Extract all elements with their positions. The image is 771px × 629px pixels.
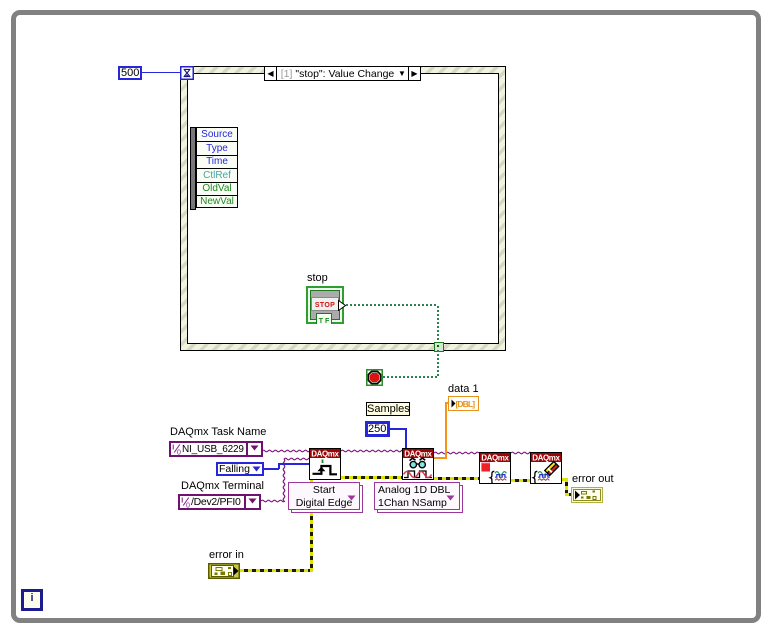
stop terminal output arrow (338, 300, 346, 311)
wire error VI2 to VI3 (434, 477, 479, 480)
wire boolean dotted to stop function (383, 376, 439, 378)
DAQmx stop task VI U3 (479, 452, 511, 484)
label Samples (366, 402, 410, 416)
wire 500 to timeout (141, 72, 180, 73)
constant 500 (118, 66, 142, 80)
svg-text:0: 0 (177, 450, 181, 456)
error in control icon (208, 563, 240, 579)
svg-text:DAQmx: DAQmx (532, 454, 560, 463)
stop function (red octagon) (366, 369, 383, 386)
wire VI3 to VI4 (511, 452, 530, 454)
wire error VI1 to VI2 (341, 476, 402, 479)
start digital edge selector (291, 485, 363, 513)
wire error VI3 to VI4 (511, 479, 530, 482)
svg-text:I: I (181, 498, 183, 505)
svg-text:0: 0 (186, 503, 190, 509)
data 1 DBL array indicator (448, 396, 479, 411)
stop label (307, 273, 328, 284)
falling combo (216, 462, 264, 476)
wire boolean dotted below tunnel (437, 350, 439, 377)
wire boolean dotted vertical into tunnel (437, 306, 439, 342)
wire task name to VI1 (262, 450, 309, 452)
svg-text:DAQmx: DAQmx (311, 450, 339, 459)
label DAQmx Terminal (181, 481, 264, 492)
wire error in to VI1 (240, 569, 313, 572)
timeout hourglass terminal (180, 66, 194, 80)
label error in (209, 550, 244, 561)
DAQmx trigger VI U1 (309, 448, 341, 480)
svg-text:DAQmx: DAQmx (481, 454, 509, 463)
wire data (orange) (434, 457, 447, 459)
event selector label (264, 66, 421, 81)
label error out (572, 474, 614, 485)
DAQmx read VI U2 (402, 448, 434, 480)
wire boolean dotted from stop terminal (346, 304, 438, 306)
label DAQmx Task Name (170, 427, 266, 438)
event structure border (180, 66, 506, 351)
wire terminal to VI1 (284, 458, 309, 460)
wire error VI4 to error out (562, 478, 568, 481)
analog 1d dbl selector (377, 485, 463, 513)
DAQmx terminal combo /Dev2/PFI0 (178, 494, 261, 510)
svg-text:DAQmx: DAQmx (404, 450, 432, 459)
wire VI2 to VI3 (434, 452, 479, 454)
constant 250 (365, 421, 390, 437)
event data node (190, 127, 196, 210)
wire terminal combo horizontal (261, 500, 285, 502)
info icon i (21, 589, 43, 611)
svg-text:I: I (172, 445, 174, 452)
wire 250 to VI2 (blue) (390, 428, 407, 430)
DAQmx clear task VI U4 (530, 452, 562, 484)
label data 1 (448, 384, 479, 395)
tunnel on event structure border (434, 342, 444, 352)
wire terminal vertical (283, 459, 285, 501)
wire falling edge (blue) (264, 468, 279, 470)
stop button terminal (306, 286, 344, 324)
DAQmx task name combo NI_USB_6229 (169, 441, 263, 457)
error out indicator icon (571, 487, 603, 503)
wire VI1 to VI2 (341, 450, 402, 452)
